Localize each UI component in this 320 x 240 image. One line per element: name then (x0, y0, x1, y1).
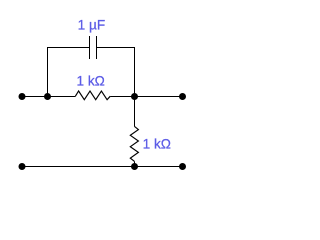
node terminal dot bottom right (179, 163, 186, 170)
node terminal dot middle right (179, 93, 186, 100)
node terminal dot bottom left (19, 163, 26, 170)
wire middle horizontal right segment (110, 96, 183, 98)
wire top horizontal left of capacitor (47, 47, 90, 49)
resistor R2 1 kOhm vertical (130, 126, 138, 161)
resistor R1 1 kOhm horizontal (75, 91, 110, 100)
svg-text:1 µF: 1 µF (78, 17, 105, 32)
wire right vertical branch down to middle wire (134, 48, 136, 97)
capacitor C1 right plate (96, 36, 98, 59)
svg-text:1 kΩ: 1 kΩ (143, 136, 171, 151)
wire bottom horizontal (22, 166, 183, 168)
node terminal dot middle left (19, 93, 26, 100)
node junction dot bottom at R2 (131, 163, 138, 170)
node junction dot middle at right branch (131, 93, 138, 100)
wire middle horizontal left segment (22, 96, 75, 98)
wire top horizontal right of capacitor (97, 47, 136, 49)
wire left vertical branch up from junction (47, 48, 49, 97)
wire vertical lead from R2 down to bottom wire (134, 161, 136, 166)
svg-text:1 kΩ: 1 kΩ (77, 73, 105, 88)
node junction dot middle at left branch (44, 93, 51, 100)
capacitor C1 left plate (89, 36, 91, 59)
wire vertical lead from middle junction down to R2 (134, 97, 136, 127)
